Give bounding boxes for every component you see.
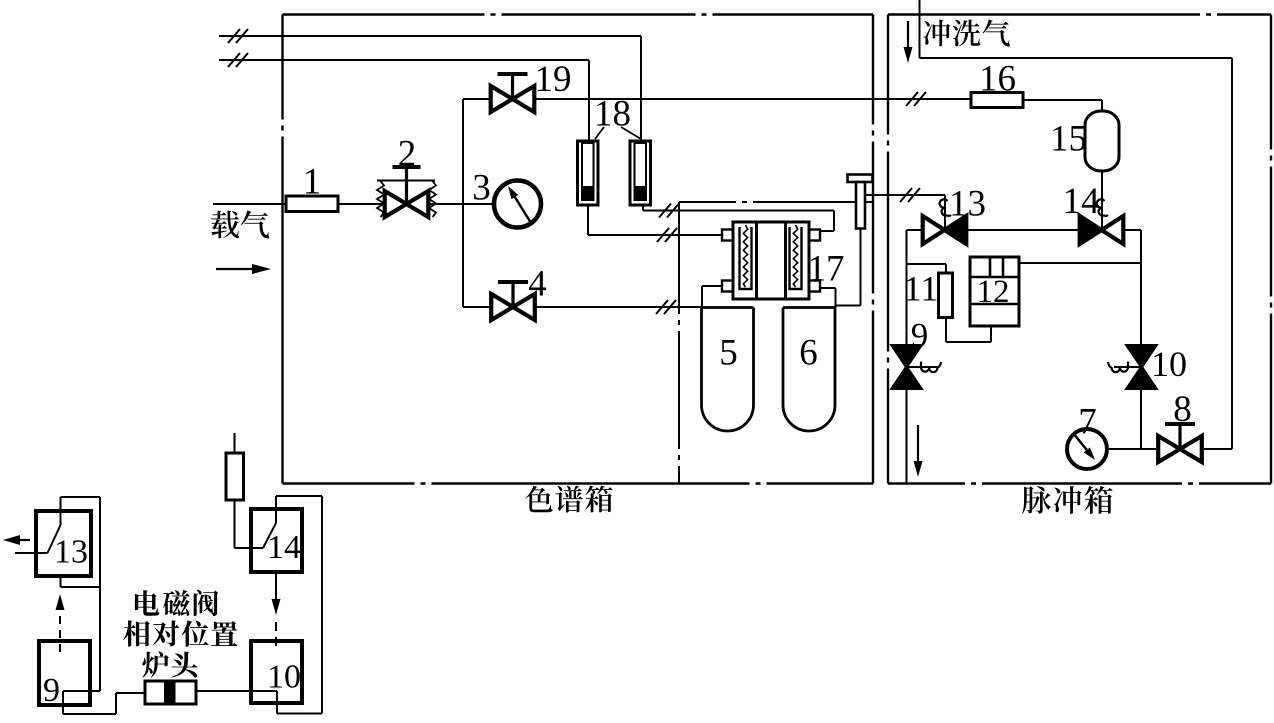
solenoid valve 10 bbox=[1127, 346, 1156, 389]
label 18 leader a bbox=[595, 127, 604, 139]
dashed wire into box 10 bbox=[275, 622, 277, 652]
wire into box 14 bbox=[235, 547, 264, 549]
svg-text:2: 2 bbox=[398, 134, 417, 175]
wire bbox=[833, 211, 835, 232]
valve 19 bbox=[491, 74, 535, 112]
column 6 bbox=[783, 308, 835, 432]
solenoid box 10 bbox=[251, 641, 302, 703]
line break mark bbox=[657, 228, 677, 242]
wire bbox=[276, 691, 278, 714]
wire bbox=[945, 318, 947, 343]
text 冲洗气 (flush gas) bbox=[923, 20, 1009, 47]
wire down right branch bbox=[1140, 230, 1142, 449]
block 17 left-bottom port bbox=[722, 281, 733, 292]
wire port to valve 13 bbox=[865, 194, 945, 196]
coil above valve 13 bbox=[940, 199, 951, 216]
restrictor 1 bbox=[286, 196, 338, 212]
furnace head bbox=[145, 681, 196, 704]
wire bbox=[276, 495, 322, 497]
column 5 bbox=[702, 308, 754, 432]
wire bbox=[1114, 366, 1142, 368]
dashed arrow 9 to 13 bbox=[56, 594, 65, 652]
wire bbox=[63, 690, 100, 692]
wire bbox=[116, 692, 145, 694]
wire bbox=[321, 496, 323, 714]
wire bbox=[60, 576, 62, 587]
solenoid valve 13 bbox=[923, 216, 967, 244]
wire bbox=[836, 305, 861, 307]
solenoid valve 9 bbox=[892, 346, 921, 389]
text 炉头 (furnace head) bbox=[142, 651, 197, 678]
pressure gauge 3 bbox=[494, 181, 541, 228]
line break mark bbox=[228, 29, 248, 43]
injection port bbox=[848, 175, 873, 183]
branch wire bbox=[462, 99, 464, 307]
coil valve 10 bbox=[1108, 362, 1128, 373]
coil valve 9 bbox=[921, 362, 941, 373]
svg-text:1: 1 bbox=[303, 162, 322, 203]
wire bbox=[1101, 100, 1103, 111]
svg-text:7: 7 bbox=[1078, 402, 1097, 443]
detector tube 18a bbox=[578, 141, 599, 205]
wire bbox=[234, 500, 236, 548]
wire bbox=[99, 497, 101, 691]
wire bbox=[820, 230, 834, 232]
wire bbox=[1201, 448, 1232, 450]
wire bbox=[907, 229, 924, 231]
pulse box right border bbox=[1270, 15, 1272, 484]
line break mark bbox=[659, 204, 679, 218]
text 载气 (carrier gas) bbox=[211, 211, 269, 239]
arrow 14 to 10 bbox=[272, 586, 281, 615]
wire bbox=[835, 288, 837, 308]
wire bbox=[61, 496, 101, 498]
svg-text:9: 9 bbox=[43, 672, 60, 709]
box 13 switch bbox=[15, 552, 48, 554]
wire bbox=[945, 264, 947, 273]
chromatography box left border bbox=[281, 15, 283, 484]
wire bbox=[944, 195, 946, 230]
detector tube 18b bbox=[630, 141, 651, 205]
wire bbox=[533, 306, 701, 308]
pulse box left border bbox=[887, 15, 889, 484]
wire bbox=[642, 205, 644, 211]
wire 18a to 17 bbox=[588, 234, 722, 236]
box 14 switch bbox=[263, 523, 276, 548]
wire bbox=[429, 203, 494, 205]
svg-text:10: 10 bbox=[1151, 344, 1187, 384]
wire bbox=[63, 713, 116, 715]
wire bbox=[820, 287, 836, 289]
gas supply line B bbox=[219, 59, 589, 61]
wire left branch bbox=[906, 230, 908, 346]
pressure gauge 7 bbox=[1067, 429, 1107, 469]
wire valve13-valve14 bbox=[966, 229, 1080, 231]
label 18 leader b bbox=[621, 127, 641, 139]
flush supply right wire bbox=[1231, 58, 1233, 449]
long wire valve19 to restrictor 16 bbox=[534, 98, 971, 100]
detector block 17 bbox=[733, 222, 809, 299]
pulse box bottom border bbox=[888, 482, 1271, 484]
coil above valve 14 bbox=[1097, 199, 1108, 216]
wire bbox=[463, 306, 493, 308]
inline filter bbox=[226, 453, 244, 500]
block 17 right-bottom port bbox=[809, 281, 820, 292]
gas supply line A bbox=[219, 35, 641, 37]
svg-text:6: 6 bbox=[799, 333, 818, 374]
wire bbox=[1023, 99, 1102, 101]
svg-text:13: 13 bbox=[54, 533, 88, 570]
svg-text:14: 14 bbox=[267, 529, 301, 566]
text 相对位置 (relative position) bbox=[123, 620, 237, 646]
wire bbox=[907, 366, 939, 368]
wire bbox=[640, 36, 642, 141]
wire bbox=[702, 285, 722, 287]
line break mark bbox=[656, 300, 676, 314]
line break mark bbox=[900, 188, 920, 202]
pulse box top border bbox=[888, 13, 1271, 15]
svg-text:12: 12 bbox=[977, 274, 1010, 310]
wire bbox=[860, 229, 862, 306]
svg-text:19: 19 bbox=[535, 59, 572, 100]
block 17 left-top port bbox=[722, 230, 733, 241]
outlet arrow bbox=[3, 535, 30, 545]
wire bbox=[275, 572, 277, 586]
svg-text:5: 5 bbox=[719, 333, 738, 374]
svg-text:11: 11 bbox=[904, 268, 939, 308]
valve 8 bbox=[1158, 424, 1202, 462]
wire bbox=[1107, 448, 1159, 450]
wire bbox=[463, 98, 491, 100]
wire 18b to 17 bbox=[643, 210, 834, 212]
svg-text:3: 3 bbox=[472, 168, 491, 209]
text 电磁阀 (solenoid valve) bbox=[135, 590, 218, 616]
wire bbox=[907, 263, 947, 265]
valve 4 bbox=[491, 282, 535, 320]
chromatography box top border bbox=[283, 13, 874, 15]
line break mark bbox=[906, 92, 926, 106]
controller 12 bbox=[970, 257, 1019, 326]
solenoid valve 14 bbox=[1080, 216, 1124, 244]
wire bbox=[115, 693, 117, 714]
flush flow arrow bbox=[904, 21, 913, 63]
svg-text:8: 8 bbox=[1173, 389, 1192, 430]
regulator valve 2 bbox=[377, 180, 435, 182]
wire bbox=[588, 60, 590, 141]
caption 色谱箱 (chromatography oven) bbox=[525, 485, 612, 512]
solenoid box 9 bbox=[39, 641, 90, 705]
wire bbox=[906, 389, 908, 484]
wire bbox=[1123, 229, 1141, 231]
wire bbox=[338, 203, 384, 205]
svg-text:17: 17 bbox=[808, 249, 845, 290]
wire 12 to right branch bbox=[1019, 262, 1141, 264]
wire bbox=[587, 205, 589, 235]
wire bbox=[1101, 171, 1103, 230]
solenoid box 13 bbox=[36, 511, 91, 576]
chromatography box right border bbox=[872, 15, 874, 484]
wire bbox=[277, 713, 322, 715]
restrictor 11 bbox=[939, 273, 953, 318]
wire bbox=[701, 286, 703, 308]
svg-text:10: 10 bbox=[267, 658, 301, 695]
solenoid box 14 bbox=[251, 509, 302, 572]
carrier flow arrow bbox=[216, 264, 271, 274]
svg-text:18: 18 bbox=[594, 94, 631, 135]
flush supply top wire bbox=[920, 57, 1233, 59]
flush gas inlet wire bbox=[919, 0, 921, 58]
restrictor 16 bbox=[971, 93, 1023, 108]
wire bbox=[990, 326, 992, 342]
vent arrow bbox=[914, 425, 923, 477]
caption 脉冲箱 (pulse box) bbox=[1022, 486, 1112, 514]
carrier gas line bbox=[213, 203, 286, 205]
svg-text:4: 4 bbox=[528, 264, 547, 305]
chromatography box bottom border bbox=[283, 482, 874, 484]
buffer tank 15 bbox=[1085, 111, 1119, 171]
svg-text:16: 16 bbox=[979, 59, 1016, 100]
wire furnace to box 10 bbox=[196, 690, 277, 692]
wire bbox=[234, 433, 236, 453]
svg-text:15: 15 bbox=[1050, 119, 1087, 160]
oven inner boundary top bbox=[679, 201, 872, 203]
block 17 right-top port bbox=[809, 230, 820, 241]
wire bbox=[62, 691, 64, 714]
wire bbox=[61, 586, 101, 588]
line break mark bbox=[228, 53, 248, 67]
wire bbox=[946, 341, 991, 343]
oven inner boundary left bbox=[678, 202, 680, 484]
